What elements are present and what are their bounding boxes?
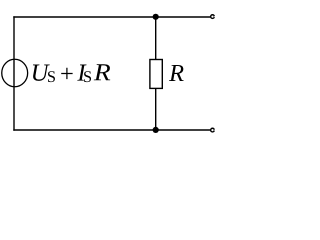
resistor R body <box>150 60 162 89</box>
label R (resistor value) <box>169 65 184 81</box>
wire top horizontal (source to terminal a) <box>13 16 210 18</box>
wire resistor branch vertical <box>155 17 157 130</box>
voltage source US+ISR circle <box>2 59 28 87</box>
wire left vertical branch through source <box>13 16 15 130</box>
label US + ISR (source value) <box>33 64 110 82</box>
wire bottom horizontal (source to terminal b) <box>13 129 210 131</box>
junction node bottom <box>153 127 159 133</box>
terminal a (open circle, top right) <box>211 15 216 19</box>
terminal b (open circle, bottom right) <box>211 128 216 132</box>
junction node top <box>153 14 159 20</box>
